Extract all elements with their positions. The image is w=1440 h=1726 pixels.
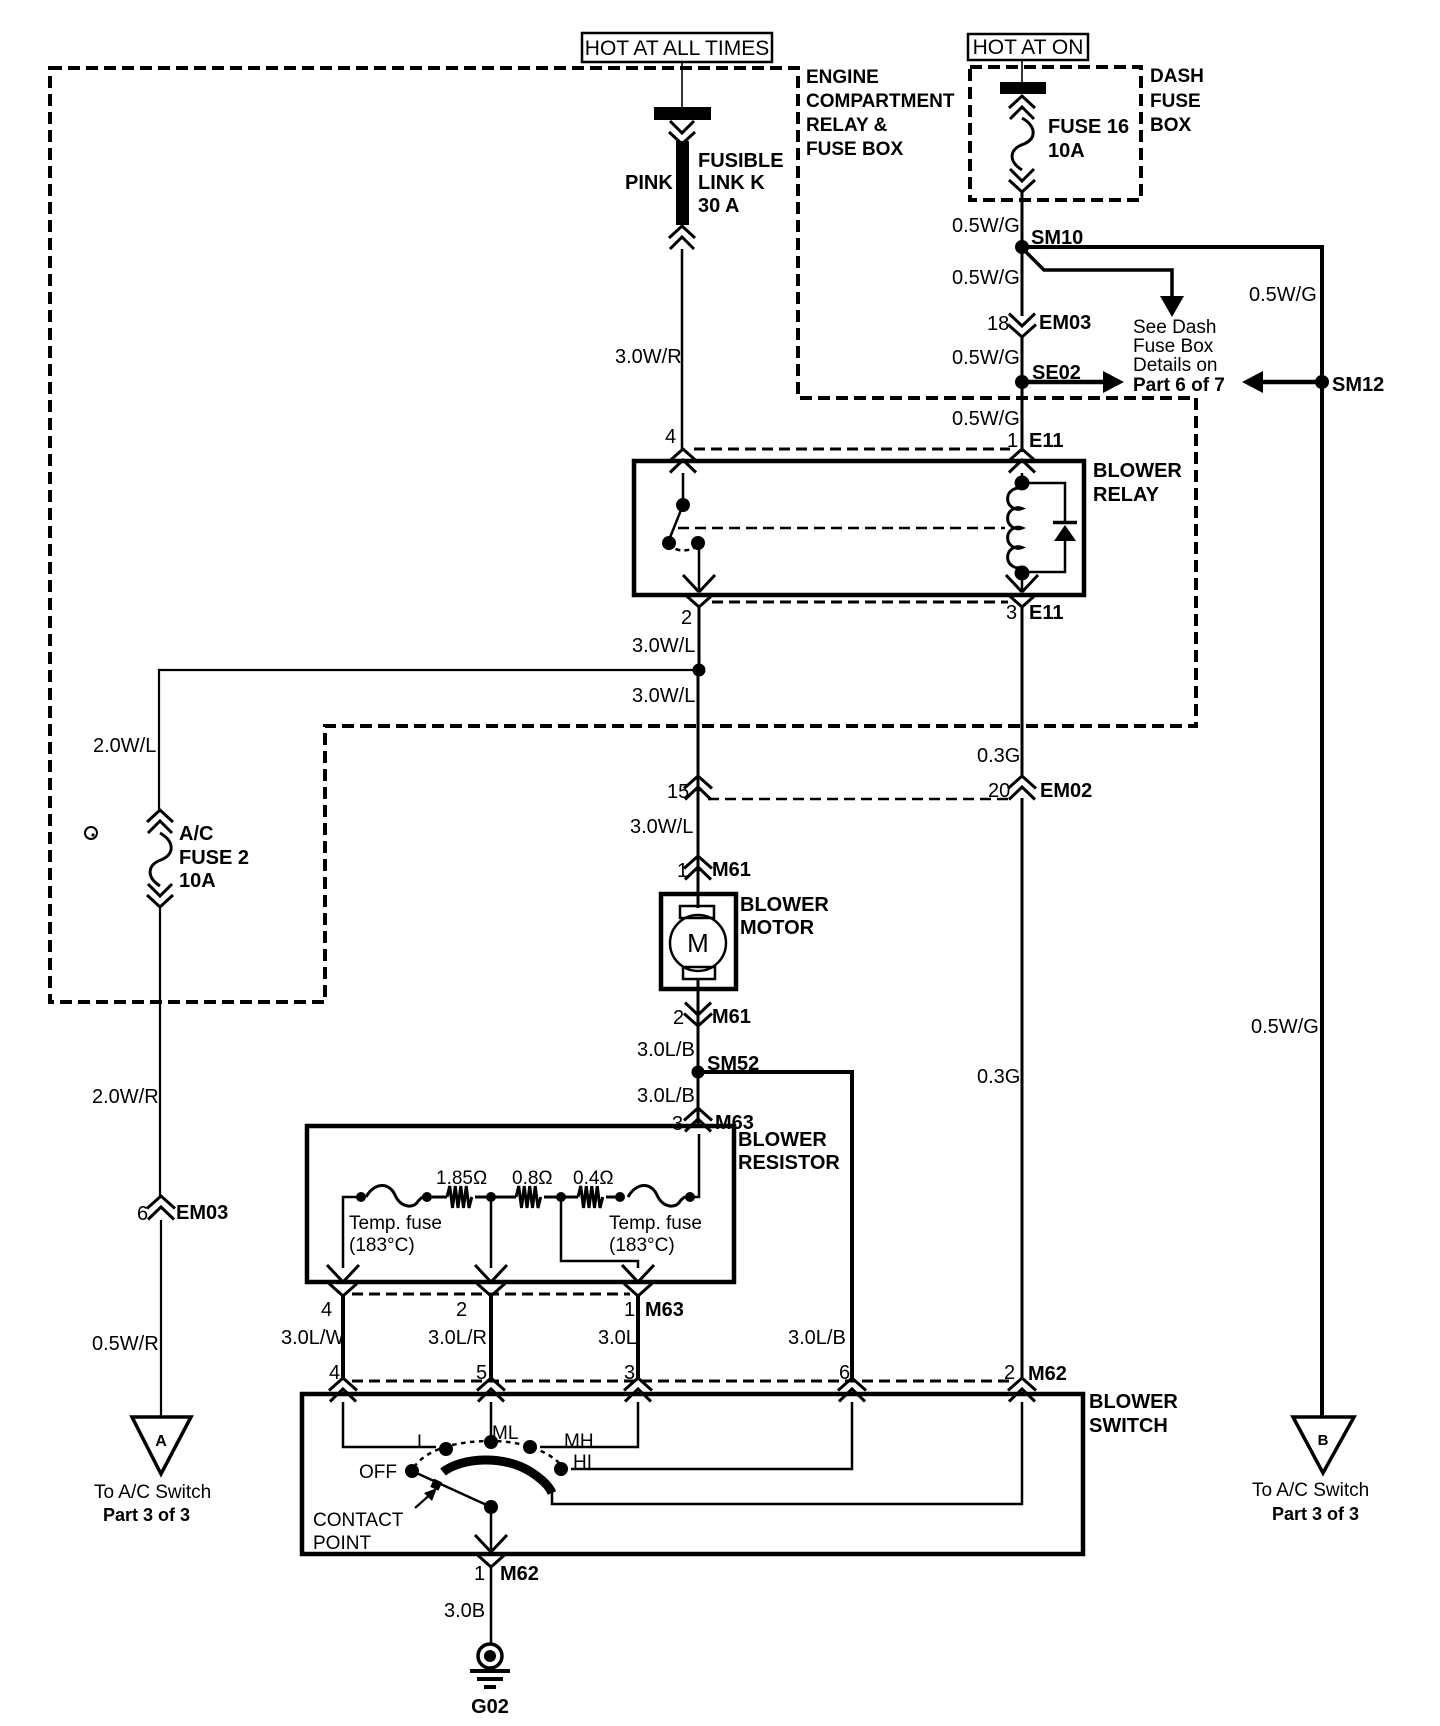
wire 0.5W/G EM03 to SE02	[952, 337, 1022, 379]
svg-text:2: 2	[673, 1007, 684, 1029]
node resistor b with drop	[475, 1192, 516, 1268]
switch contact ML	[484, 1402, 518, 1449]
wire 0.5W/G right column to B	[1251, 385, 1322, 1417]
svg-text:3.0L/B: 3.0L/B	[637, 1085, 695, 1107]
switch dashed contact arc	[414, 1441, 560, 1467]
svg-text:HOT AT ALL TIMES: HOT AT ALL TIMES	[585, 37, 769, 60]
wire 2.0W/R	[92, 907, 160, 1198]
svg-text:FUSE 2: FUSE 2	[179, 847, 249, 869]
svg-text:Details on: Details on	[1133, 355, 1218, 376]
svg-text:3: 3	[1006, 602, 1017, 624]
svg-text:BLOWER: BLOWER	[738, 1129, 827, 1151]
svg-text:3.0L/W: 3.0L/W	[281, 1327, 344, 1349]
node SM10	[1015, 227, 1083, 254]
switch rotor output to pin 2	[552, 1402, 1022, 1504]
connector M62 pin 3	[624, 1362, 652, 1402]
switch contact MH	[523, 1402, 638, 1454]
engine compartment relay & fuse box label	[806, 67, 955, 160]
connector M63 pin 3	[672, 1108, 754, 1135]
fusible link K 30A (PINK)	[625, 107, 784, 249]
wire 0.3G relay to EM02	[977, 607, 1022, 778]
svg-text:3: 3	[624, 1362, 635, 1384]
connector E11 pin 4	[665, 426, 697, 473]
wire 2.0W/L branch to A/C fuse	[93, 670, 699, 812]
connector E11 pin 3	[1006, 595, 1063, 625]
svg-text:1.85Ω: 1.85Ω	[436, 1168, 487, 1189]
svg-text:BLOWER: BLOWER	[1093, 460, 1182, 482]
switch contact L	[343, 1402, 453, 1456]
relay switch contact	[662, 473, 715, 592]
connector M63 pin 4	[321, 1265, 359, 1321]
svg-text:3.0L/B: 3.0L/B	[637, 1039, 695, 1061]
svg-text:E11: E11	[1029, 430, 1063, 452]
svg-text:6: 6	[839, 1362, 850, 1384]
svg-text:3.0L/B: 3.0L/B	[788, 1327, 846, 1349]
svg-text:10A: 10A	[179, 870, 216, 892]
svg-text:To A/C Switch: To A/C Switch	[94, 1482, 211, 1503]
svg-text:Part 6 of 7: Part 6 of 7	[1133, 375, 1225, 396]
wire 0.3G EM02 to switch	[977, 798, 1022, 1380]
node SM52	[692, 1053, 760, 1079]
svg-text:HI: HI	[573, 1452, 592, 1473]
svg-text:FUSE: FUSE	[1150, 91, 1201, 112]
svg-text:M61: M61	[712, 1006, 751, 1028]
power source label HOT AT ALL TIMES	[582, 33, 772, 62]
svg-text:0.5W/G: 0.5W/G	[952, 347, 1020, 369]
svg-text:E11: E11	[1029, 602, 1063, 624]
connector E11 pin 1	[1007, 430, 1063, 473]
wire 0.5W/R	[92, 1220, 161, 1417]
connector EM02 link pins 15-20	[708, 798, 1008, 801]
svg-text:3.0W/R: 3.0W/R	[615, 346, 682, 368]
connector M62 link top	[352, 1380, 1012, 1383]
off-page connector A to A/C switch	[94, 1417, 211, 1525]
svg-text:2: 2	[456, 1299, 467, 1321]
svg-text:1: 1	[474, 1563, 485, 1585]
resistor 0.8 ohm	[512, 1168, 553, 1208]
connector E11 pin 2	[681, 595, 713, 630]
connector M62 pin 1	[474, 1555, 539, 1586]
svg-text:20: 20	[988, 780, 1010, 802]
svg-text:(183°C): (183°C)	[609, 1235, 675, 1256]
temp fuse 183C left	[349, 1185, 442, 1256]
svg-text:M63: M63	[645, 1299, 684, 1321]
svg-text:CONTACT: CONTACT	[313, 1510, 404, 1531]
switch rotor thick arc	[443, 1460, 552, 1493]
wire 3.0W/L relay to junction	[632, 607, 699, 670]
connector M62 pin 4	[329, 1362, 357, 1402]
blower switch box	[302, 1391, 1178, 1554]
arrow to dash fuse box note	[1024, 250, 1184, 317]
svg-text:0.5W/R: 0.5W/R	[92, 1333, 159, 1355]
connector EM02 pin 20	[988, 776, 1092, 802]
svg-text:M61: M61	[712, 859, 751, 881]
connector EM03 pin 6	[137, 1196, 228, 1225]
relay diode	[1028, 483, 1077, 572]
svg-text:M62: M62	[1028, 1363, 1067, 1385]
svg-text:1: 1	[624, 1299, 635, 1321]
connector E11 link pins 4-1	[694, 448, 1010, 451]
svg-text:Temp. fuse: Temp. fuse	[349, 1213, 442, 1234]
connector M63 pin 2	[456, 1265, 507, 1321]
svg-text:See Dash: See Dash	[1133, 317, 1216, 338]
temp fuse 183C right	[609, 1185, 702, 1256]
ground G02	[470, 1644, 510, 1718]
svg-text:ENGINE: ENGINE	[806, 67, 879, 88]
svg-text:B: B	[1318, 1432, 1329, 1449]
svg-text:MH: MH	[564, 1431, 594, 1452]
svg-text:(183°C): (183°C)	[349, 1235, 415, 1256]
svg-text:RELAY: RELAY	[1093, 484, 1160, 506]
svg-text:2.0W/L: 2.0W/L	[93, 735, 156, 757]
wire 3.0L/B SM52 to resistor	[637, 1074, 698, 1126]
wire 0.5W/G from SM10 to right column	[1024, 247, 1322, 378]
svg-text:COMPARTMENT: COMPARTMENT	[806, 91, 955, 112]
connector M62 pin 2	[1004, 1362, 1067, 1402]
svg-text:RESISTOR: RESISTOR	[738, 1152, 840, 1174]
svg-text:2.0W/R: 2.0W/R	[92, 1086, 159, 1108]
node junction 3.0W/L	[632, 664, 706, 708]
resistor 1.85 ohm	[436, 1168, 487, 1208]
svg-text:G02: G02	[471, 1696, 509, 1718]
svg-text:30 A: 30 A	[698, 195, 740, 217]
svg-text:BOX: BOX	[1150, 115, 1192, 136]
connector M63 link	[352, 1293, 630, 1296]
svg-text:ML: ML	[492, 1423, 518, 1444]
svg-text:3.0B: 3.0B	[444, 1600, 485, 1622]
svg-text:To A/C Switch: To A/C Switch	[1252, 1480, 1369, 1501]
svg-text:DASH: DASH	[1150, 66, 1204, 87]
engine compartment relay & fuse box dashed boundary	[50, 68, 1196, 1002]
svg-text:A/C: A/C	[179, 823, 213, 845]
dash fuse box label	[1150, 66, 1204, 136]
svg-text:0.5W/G: 0.5W/G	[952, 215, 1020, 237]
wire 3.0L/B motor to SM52	[637, 989, 698, 1070]
svg-text:Part 3 of 3: Part 3 of 3	[103, 1505, 190, 1525]
wire 3.0L/W	[281, 1296, 344, 1380]
node resistor c with branch	[544, 1192, 638, 1268]
connector EM03 pin 18	[987, 312, 1091, 337]
connector M63 pin 1	[622, 1265, 684, 1321]
svg-text:Temp. fuse: Temp. fuse	[609, 1213, 702, 1234]
svg-text:RELAY &: RELAY &	[806, 115, 888, 136]
svg-text:FUSE 16: FUSE 16	[1048, 116, 1129, 138]
wire 3.0W/L junction to motor	[630, 673, 698, 897]
blower resistor box	[307, 1126, 840, 1282]
svg-text:0.5W/G: 0.5W/G	[1249, 284, 1317, 306]
svg-text:0.5W/G: 0.5W/G	[952, 267, 1020, 289]
svg-text:0.5W/G: 0.5W/G	[952, 408, 1020, 430]
off-page connector B to A/C switch	[1252, 1417, 1369, 1524]
wire from HOT AT ALL TIMES	[681, 62, 683, 110]
svg-text:OFF: OFF	[359, 1462, 397, 1483]
svg-text:15: 15	[667, 781, 689, 803]
svg-text:M62: M62	[500, 1563, 539, 1585]
svg-text:0.3G: 0.3G	[977, 745, 1020, 767]
wire 3.0L	[598, 1296, 638, 1380]
svg-text:0.8Ω: 0.8Ω	[512, 1168, 553, 1189]
connector M61 pin 1	[677, 856, 751, 882]
svg-text:M: M	[687, 928, 709, 958]
fuse F16 FUSE 16 10A	[1000, 82, 1129, 192]
power source label HOT AT ON	[968, 34, 1088, 60]
svg-text:1: 1	[677, 860, 688, 882]
fuse A/C FUSE 2 10A	[147, 810, 249, 907]
svg-text:3.0W/L: 3.0W/L	[632, 685, 695, 707]
svg-text:POINT: POINT	[313, 1533, 371, 1554]
decorative mark small circle	[85, 827, 97, 839]
wire from HOT AT ON	[1021, 60, 1023, 84]
svg-text:18: 18	[987, 313, 1009, 335]
svg-text:HOT AT ON: HOT AT ON	[973, 36, 1084, 59]
svg-text:Fuse Box: Fuse Box	[1133, 336, 1214, 357]
svg-text:4: 4	[329, 1362, 340, 1384]
blower relay box	[634, 460, 1182, 595]
dash fuse box dashed boundary	[970, 67, 1141, 200]
resistor 0.4 ohm	[573, 1168, 614, 1208]
connector M62 pin 5	[476, 1362, 505, 1402]
node resistor e	[685, 1192, 695, 1202]
svg-text:Part 3 of 3: Part 3 of 3	[1272, 1504, 1359, 1524]
svg-text:5: 5	[476, 1362, 487, 1384]
svg-text:LINK K: LINK K	[698, 172, 765, 194]
svg-text:A: A	[155, 1433, 167, 1450]
svg-text:3.0L: 3.0L	[598, 1327, 637, 1349]
svg-text:PINK: PINK	[625, 172, 673, 194]
connector M62 pin 6	[838, 1362, 866, 1402]
svg-text:6: 6	[137, 1203, 148, 1225]
svg-text:SE02: SE02	[1032, 362, 1081, 384]
node resistor d	[606, 1192, 625, 1202]
svg-text:2: 2	[1004, 1362, 1015, 1384]
svg-text:EM03: EM03	[1039, 312, 1091, 334]
wire 3.0L/R	[428, 1296, 491, 1380]
contact point label with arrow	[313, 1488, 437, 1554]
svg-text:0.3G: 0.3G	[977, 1066, 1020, 1088]
svg-text:0.4Ω: 0.4Ω	[573, 1168, 614, 1189]
wire 0.5W/G fuse16 to SM10	[952, 192, 1022, 244]
svg-text:EM02: EM02	[1040, 780, 1092, 802]
svg-text:2: 2	[681, 607, 692, 629]
svg-text:FUSIBLE: FUSIBLE	[698, 150, 784, 172]
switch contact HI	[554, 1402, 852, 1476]
blower motor	[661, 894, 829, 989]
node resistor a	[422, 1192, 447, 1202]
connector E11 link pins 2-3	[712, 601, 1008, 604]
connector M61 pin 2	[673, 1003, 751, 1030]
connector EM02 pin 15	[667, 776, 712, 803]
svg-text:MOTOR: MOTOR	[740, 917, 815, 939]
svg-text:1: 1	[1007, 430, 1018, 452]
switch pivot to pin 1	[475, 1500, 507, 1552]
wire 3.0L/B branch SM52 to blower switch pin 6	[698, 1072, 852, 1380]
svg-text:0.5W/G: 0.5W/G	[1251, 1016, 1319, 1038]
relay coil	[1008, 473, 1030, 581]
svg-text:3.0W/L: 3.0W/L	[630, 816, 693, 838]
svg-text:BLOWER: BLOWER	[1089, 1391, 1178, 1413]
switch wiper arm	[412, 1471, 491, 1507]
node SE02 with arrow	[1015, 362, 1124, 393]
svg-text:4: 4	[665, 426, 676, 448]
wire 0.5W/G SM10 to EM03	[952, 250, 1022, 316]
relay control dashed line	[678, 527, 1005, 530]
note See Dash Fuse Box Details on Part 6 of 7	[1133, 317, 1225, 396]
node SM12 with arrow	[1242, 371, 1384, 396]
svg-text:L: L	[417, 1432, 428, 1453]
svg-text:4: 4	[321, 1299, 332, 1321]
svg-text:SWITCH: SWITCH	[1089, 1415, 1168, 1437]
svg-text:EM03: EM03	[176, 1202, 228, 1224]
relay pin3 internal arrow	[1006, 575, 1038, 592]
wire 3.0B	[444, 1567, 491, 1644]
svg-text:SM12: SM12	[1332, 374, 1384, 396]
svg-text:10A: 10A	[1048, 140, 1085, 162]
svg-text:3.0W/L: 3.0W/L	[632, 635, 695, 657]
resistor network internal wiring	[343, 1134, 699, 1268]
wire 0.5W/G SE02 to E11 pin1	[952, 385, 1022, 452]
svg-text:3.0L/R: 3.0L/R	[428, 1327, 487, 1349]
svg-text:BLOWER: BLOWER	[740, 894, 829, 916]
wire 3.0W/R	[615, 249, 682, 450]
switch contact OFF	[359, 1462, 419, 1483]
svg-text:FUSE BOX: FUSE BOX	[806, 139, 903, 160]
